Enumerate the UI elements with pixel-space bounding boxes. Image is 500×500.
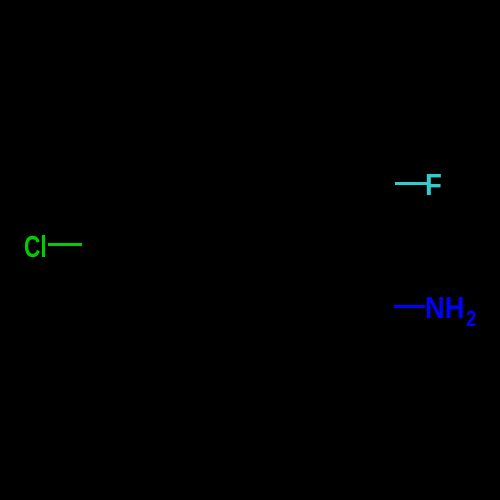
bond Cl&#8211;C half-bond (green stub)	[48, 243, 82, 246]
bond C&#8211;N half-bond (blue stub)	[394, 305, 425, 308]
atom label NH of NH2 (amine nitrogen)	[425, 292, 464, 323]
atom label F (fluorine)	[425, 169, 442, 200]
atom label Cl (chlorine)	[24, 231, 47, 262]
bond C&#8211;F half-bond (teal stub)	[395, 182, 427, 185]
atom label subscript 2 of NH2	[466, 308, 476, 331]
